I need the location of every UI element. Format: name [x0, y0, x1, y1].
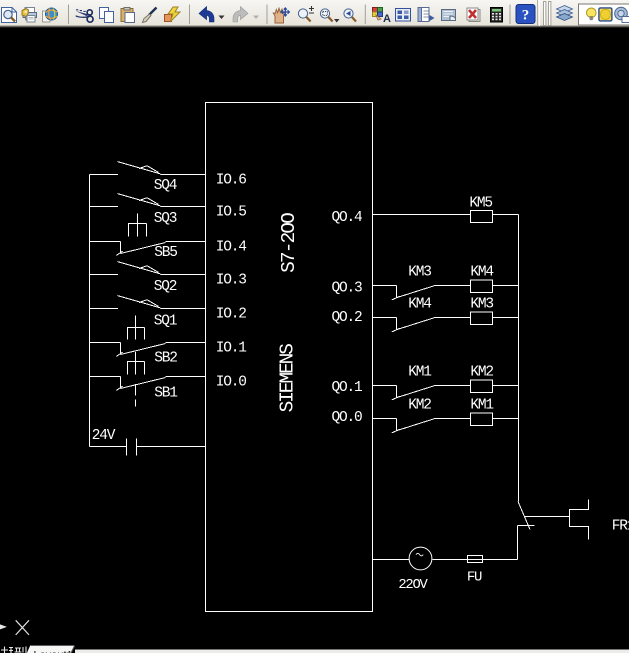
svg-text:QO.4: QO.4: [332, 210, 363, 226]
svg-text:SQ3: SQ3: [154, 211, 177, 227]
svg-text:QO.2: QO.2: [332, 310, 363, 326]
svg-text:FR1: FR1: [612, 518, 629, 534]
svg-text:S7-2OO: S7-2OO: [278, 213, 300, 273]
svg-text:IO.1: IO.1: [216, 341, 247, 357]
svg-text:Layout1: Layout1: [34, 650, 73, 653]
svg-text:SIEMENS: SIEMENS: [277, 344, 299, 413]
svg-text:IO.3: IO.3: [216, 273, 247, 289]
svg-text:IO.0: IO.0: [216, 375, 247, 391]
svg-text:KM2: KM2: [408, 398, 431, 414]
svg-text:KM3: KM3: [408, 265, 431, 281]
svg-text:SB5: SB5: [154, 245, 177, 261]
svg-text:KM1: KM1: [470, 398, 493, 414]
svg-text:IO.6: IO.6: [216, 173, 247, 189]
svg-text:KM1: KM1: [408, 365, 431, 381]
svg-text:SQ1: SQ1: [154, 313, 177, 329]
svg-text:KM2: KM2: [470, 365, 493, 381]
svg-text:SQ2: SQ2: [154, 279, 177, 295]
svg-text:24V: 24V: [92, 428, 116, 444]
svg-text:KM3: KM3: [470, 297, 493, 313]
svg-text:IO.4: IO.4: [216, 240, 247, 256]
svg-text:FU: FU: [467, 569, 482, 585]
svg-text:QO.1: QO.1: [332, 380, 363, 396]
svg-text:SQ4: SQ4: [154, 178, 177, 194]
svg-text:KM5: KM5: [469, 196, 492, 212]
svg-text:SB1: SB1: [154, 386, 177, 402]
svg-text:KM4: KM4: [408, 297, 431, 313]
svg-text:SB2: SB2: [154, 350, 177, 366]
svg-text:QO.0: QO.0: [332, 410, 363, 426]
svg-text:QO.3: QO.3: [332, 281, 363, 297]
svg-text:KM4: KM4: [470, 265, 493, 281]
svg-text:IO.5: IO.5: [216, 205, 247, 221]
svg-text:IO.2: IO.2: [216, 307, 247, 323]
svg-text:22OV: 22OV: [398, 578, 428, 593]
